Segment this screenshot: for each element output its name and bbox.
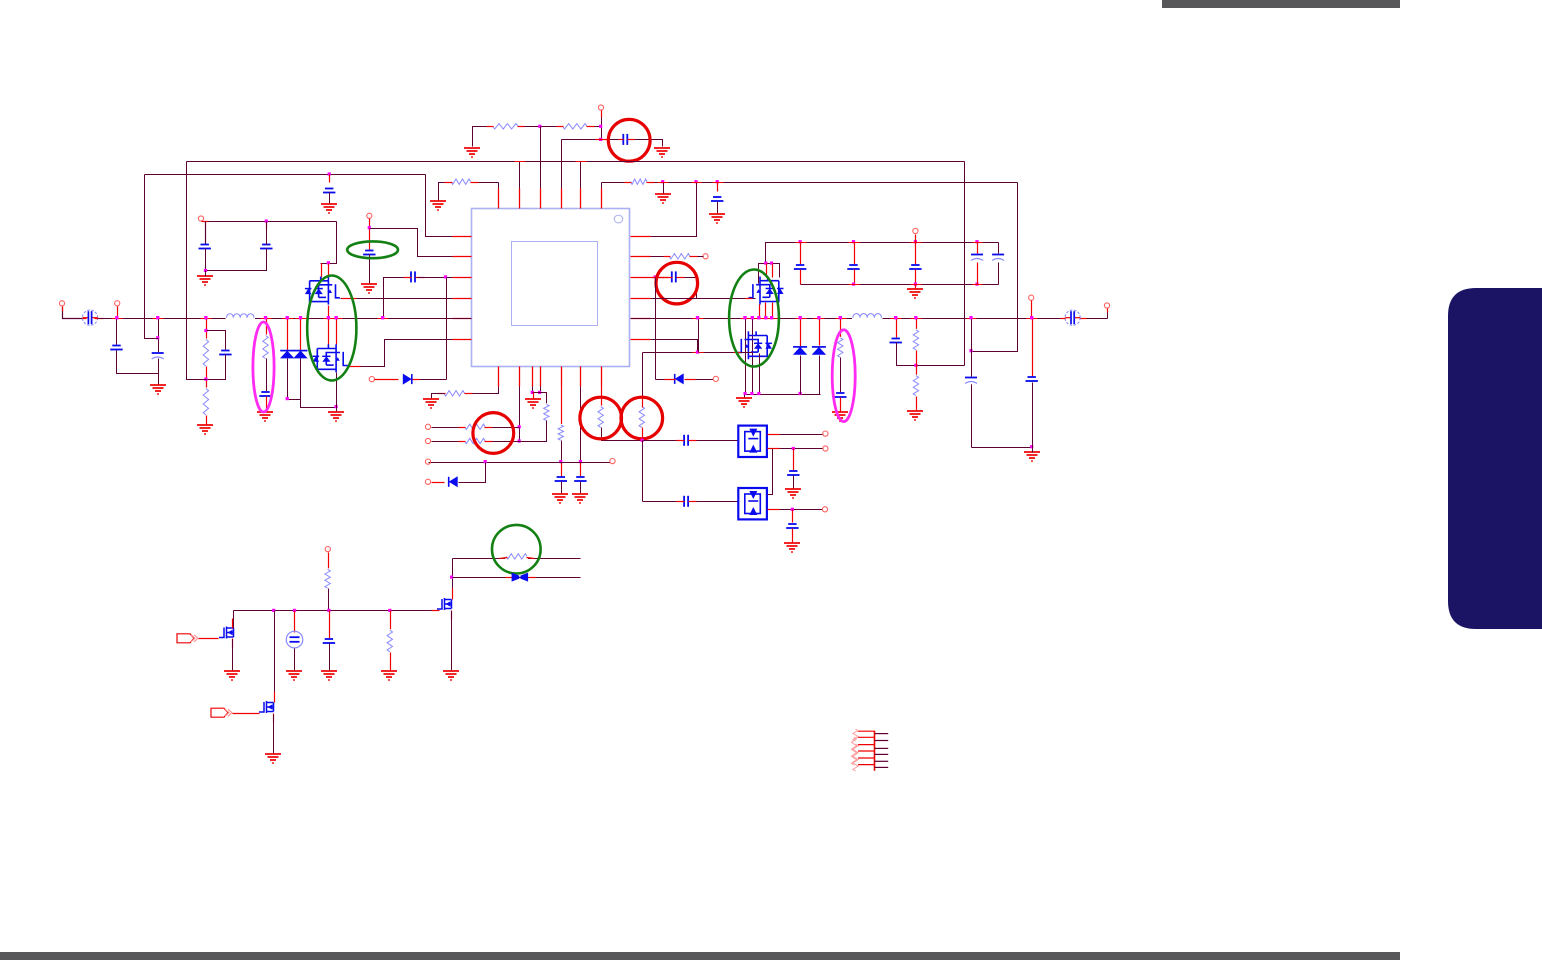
- ground under col793: [785, 489, 801, 498]
- red leads R-green: [500, 558, 508, 559]
- terminal box circuit: [198, 216, 203, 221]
- ground under col265: [257, 412, 273, 421]
- rail3 y393: [745, 394, 821, 396]
- wire col157: [158, 319, 160, 353]
- wire C-x369 to ground: [369, 255, 371, 285]
- wire cap col800 b: [800, 270, 802, 285]
- polarized cap C-998: [992, 254, 1005, 262]
- mosfet Q6: [259, 701, 274, 713]
- junction rail610 c: [327, 609, 330, 612]
- red stub DB1 top: [768, 434, 780, 436]
- resistor R-green-circle: [505, 552, 528, 561]
- polarized cap C-977: [971, 254, 984, 262]
- wire y501 to box2: [643, 501, 677, 503]
- junction gate box b: [770, 262, 773, 265]
- wire col641 bottom: [642, 428, 644, 441]
- wire terminal rail1: [915, 235, 917, 243]
- wire diode3 bottom: [800, 356, 802, 395]
- junction main 157: [156, 316, 159, 319]
- wire Q3 bottom legs: [759, 305, 761, 319]
- polarized cap C-971: [965, 377, 978, 385]
- resistor R-row181-left: [450, 177, 472, 186]
- resistor R-col840: [836, 337, 845, 359]
- resistor R-top-b: [562, 122, 588, 131]
- junction rail1 d: [975, 240, 978, 243]
- wire bottom res top: [328, 553, 330, 570]
- diode row right y379: [674, 374, 676, 384]
- junction main 895: [894, 316, 897, 319]
- ground under rail3: [736, 398, 752, 407]
- wire col697 main to wireB: [698, 319, 700, 353]
- wire P1 to Q5: [199, 638, 219, 640]
- wire col642 down: [642, 441, 644, 502]
- wire cap col853 b: [854, 270, 856, 285]
- junction main 265: [264, 316, 267, 319]
- junction DB2 bottom: [791, 508, 794, 511]
- wire branch to cap 225: [207, 331, 226, 351]
- junction bus2b pinrow1: [694, 180, 697, 183]
- wire col294: [294, 611, 296, 633]
- terminal output A: [1104, 303, 1109, 308]
- resistor R-row2: [668, 252, 691, 261]
- highlight circle C-row3r: [656, 262, 698, 304]
- wire col840 bottom: [840, 398, 842, 413]
- resistor R-393: [443, 389, 466, 398]
- IC U1 inner pad: [512, 242, 598, 326]
- junction main 205: [204, 316, 207, 319]
- wire C-y501 to box2: [697, 501, 739, 503]
- ground under col792: [784, 543, 800, 552]
- wire col532 down: [532, 387, 534, 393]
- red stub DB2 bottom: [768, 509, 780, 511]
- wire polcap col977: [977, 243, 979, 254]
- wire Q1 to IC row4: [341, 298, 453, 300]
- bus2a horizontal: [145, 174, 426, 176]
- wire DB1-DB2 link: [768, 449, 773, 495]
- red lead diode row: [413, 379, 420, 381]
- junction box top: [265, 220, 268, 223]
- red leads C-y501: [677, 501, 685, 503]
- wire col560 low: [561, 463, 563, 477]
- wire horiz1 y557: [453, 558, 581, 560]
- wire col519 down: [519, 387, 521, 442]
- wire col205: [206, 319, 208, 341]
- wire DB2 out bottom: [768, 509, 823, 511]
- wire C-y440 to box1: [697, 440, 739, 442]
- navy side tab: [1448, 288, 1542, 629]
- wire R-col205-2 bottom: [206, 416, 208, 426]
- wire col840 mid: [840, 358, 842, 393]
- terminal diode481: [425, 479, 430, 484]
- junction rail610 b: [293, 609, 296, 612]
- ground under Y1: [286, 671, 302, 680]
- wire C-row3 to IC: [418, 277, 453, 279]
- ground under rail2: [907, 289, 923, 298]
- wire box cap2 drop: [266, 222, 268, 245]
- ground top-left under row126: [464, 148, 480, 157]
- wire R-circle3a: [493, 427, 520, 429]
- red lead diode655 r: [685, 379, 696, 381]
- ground under col560: [552, 494, 568, 503]
- junction col519 a: [518, 425, 521, 428]
- junction main 745: [743, 316, 746, 319]
- terminal rail461 right: [610, 459, 615, 464]
- terminal DB1 top: [823, 431, 828, 436]
- wire row3r: [651, 277, 669, 279]
- junction rail1 b: [852, 240, 855, 243]
- wire R-col205-1 bottom: [206, 367, 208, 389]
- wire C-in2 bottom: [158, 359, 160, 386]
- ground under col533: [525, 399, 541, 408]
- junction rail2 b: [914, 283, 917, 286]
- capacitor C-top in circle: [623, 133, 629, 145]
- wire col1031: [1032, 319, 1034, 377]
- wire col915 mid: [916, 351, 918, 377]
- junction bus2b ground: [661, 180, 664, 183]
- red leads R-row181-left: [445, 182, 453, 184]
- junction row139: [599, 138, 602, 141]
- junction col205 branch: [204, 329, 207, 332]
- wire ground rail2 stub: [915, 285, 917, 290]
- resistor R-col641: [638, 406, 647, 429]
- wire diode2 top: [300, 319, 302, 351]
- junction main 287: [286, 316, 289, 319]
- wire row2 right lead: [651, 256, 670, 258]
- red leads R-top-a: [487, 126, 494, 128]
- wire row3 left: [384, 278, 411, 319]
- diode D-row379: [411, 374, 413, 384]
- ground under col840: [832, 412, 848, 421]
- ground under C-bus2b: [709, 214, 725, 223]
- capacitor C-915: [909, 264, 922, 270]
- green ellipse C-x369: [347, 241, 398, 258]
- wire ground col1031 stub: [1032, 448, 1034, 453]
- red leads R-top-b: [557, 126, 564, 128]
- capacitor C-col840: [834, 392, 847, 398]
- wire terminal-R3a: [432, 427, 459, 429]
- diode D-818: [812, 346, 826, 348]
- dual diode package DB1: [738, 426, 767, 457]
- wire row1 right: [651, 183, 697, 237]
- red leads C-y440: [677, 440, 685, 442]
- wire B gate drive: [643, 352, 753, 354]
- junction col157 bus2a: [156, 336, 159, 339]
- wire col498 down: [445, 387, 499, 394]
- junction col205 mid: [204, 378, 207, 381]
- red junction segments bus1: [515, 161, 526, 163]
- terminal R-circle3a: [425, 424, 430, 429]
- ground under C-in2: [150, 385, 166, 394]
- junction bus2b cap: [716, 180, 719, 183]
- wire col971: [971, 319, 973, 377]
- terminal rail461 left: [425, 459, 430, 464]
- capacitor C-800: [794, 264, 807, 270]
- rail1 y241: [766, 243, 999, 264]
- wire Q2 bottom: [336, 373, 338, 413]
- wire ground col533 stub: [533, 393, 535, 400]
- junction main 752: [751, 316, 754, 319]
- red stubs Q7 leads: [452, 589, 454, 600]
- junction main 1031: [1030, 316, 1033, 319]
- wire diode4 col818: [819, 319, 821, 346]
- diode D-287: [280, 350, 294, 352]
- terminal row2: [703, 254, 708, 259]
- wire col389: [390, 611, 392, 631]
- wire diode655: [656, 379, 676, 381]
- wire IC pin col 519 up to bus1: [519, 162, 521, 189]
- capacitor C-y501: [683, 495, 689, 507]
- junction col532: [531, 391, 534, 394]
- red stubs Q6 leads: [274, 692, 276, 703]
- resistor network RN1: [851, 729, 888, 771]
- capacitor C-col328: [322, 638, 335, 644]
- gate box bar: [759, 264, 780, 284]
- junction wireB: [696, 351, 699, 354]
- inductor main line: [226, 311, 256, 325]
- highlight circle R-col600: [580, 397, 622, 439]
- wire col600 bottom: [602, 428, 643, 441]
- junction main 758: [757, 316, 760, 319]
- wire cap col800: [800, 243, 802, 265]
- capacitor C-col265: [259, 391, 272, 397]
- red stubs Q5 leads: [232, 619, 234, 629]
- wire bus2a down to IC pin1: [426, 175, 453, 237]
- red stub DB1 bottom: [768, 448, 780, 450]
- terminal x369: [367, 213, 372, 218]
- capacitor C-in1: [110, 345, 123, 351]
- wire col895 to rail4: [897, 343, 965, 366]
- resistor R-col205-1: [202, 339, 211, 368]
- bus1 horizontal: [187, 161, 965, 163]
- wire horiz2 y577: [453, 577, 581, 579]
- wire col655 down: [655, 278, 657, 380]
- resistor R-col915-2: [912, 375, 921, 397]
- resistor R-circle3a: [464, 423, 487, 432]
- red stub row139: [596, 139, 608, 141]
- terminal R-circle3b: [425, 438, 430, 443]
- red leads R-row2: [664, 256, 671, 258]
- ground under row181 left: [430, 201, 446, 210]
- wire bus2b right end down: [972, 183, 1018, 352]
- junction rail1 a: [799, 240, 802, 243]
- terminal diode right row: [713, 376, 718, 381]
- capacitor C-box-2: [260, 244, 273, 250]
- junction main 771: [770, 316, 773, 319]
- wire cap col915: [915, 243, 917, 265]
- terminal above rail1: [913, 228, 918, 233]
- wire terminal to resistor row: [601, 111, 603, 118]
- inductor2 main line: [852, 311, 883, 325]
- wire cap col 116: [116, 319, 118, 345]
- wire main line right: [631, 318, 1108, 320]
- junction rail2 c: [975, 283, 978, 286]
- ground under R-393: [423, 399, 439, 408]
- wire terminal x369 down: [369, 219, 371, 251]
- wire cap row y139: [562, 140, 663, 147]
- wire col915 bottom: [916, 397, 918, 411]
- junction row126 b: [599, 125, 602, 128]
- ground under col580: [572, 494, 588, 503]
- resistor R-col546: [542, 403, 551, 421]
- wire diode2 bottom: [301, 359, 337, 408]
- junction DB1 bottom: [792, 447, 795, 450]
- wire col792 cap: [792, 510, 794, 523]
- terminal DB1 bottom: [823, 446, 828, 451]
- IC U1 outline: [472, 209, 630, 367]
- wire row6 right: [651, 340, 698, 353]
- diode D-481: [448, 477, 450, 487]
- wire cap col853: [854, 243, 856, 265]
- magenta ellipse col840: [832, 330, 855, 422]
- junction Q7 drain: [450, 576, 453, 579]
- wire Q7 source: [451, 611, 453, 672]
- wire main line left: [99, 318, 472, 320]
- wire y440 to box1: [643, 440, 677, 442]
- junction main 971: [969, 316, 972, 319]
- wire box left cap drop: [205, 222, 207, 245]
- junction x369: [368, 226, 371, 229]
- wire rail3 ground: [744, 395, 746, 398]
- port pennant P1: [177, 634, 194, 643]
- fuse input: [82, 310, 97, 325]
- mosfet Q5: [219, 627, 234, 639]
- ground under box: [197, 276, 213, 285]
- capacitor C-row3r: [671, 271, 677, 283]
- wire box bottom: [206, 249, 267, 271]
- wire col560 mid: [561, 441, 563, 463]
- wire diode655 to terminal: [696, 379, 714, 381]
- wire col294 gnd: [294, 649, 296, 672]
- wire col580 low: [580, 463, 582, 477]
- red stub output A: [1107, 309, 1109, 313]
- wire mosfet gate legs: [321, 264, 323, 278]
- junction rail3 a: [744, 392, 747, 395]
- wire Q5 source: [232, 640, 234, 672]
- red stub col641: [642, 399, 644, 408]
- red junction segments rail2: [849, 284, 860, 286]
- wire col793 gnd: [793, 476, 795, 489]
- IC U1 pins: [453, 189, 651, 387]
- capacitor C-895: [889, 338, 902, 344]
- wire Q7 drain up: [452, 559, 454, 597]
- ground under col205: [197, 425, 213, 434]
- resistor R-top-a: [492, 122, 519, 131]
- junction gate box a: [764, 262, 767, 265]
- wire DB1 out bottom: [768, 448, 824, 450]
- wire Q1 bottom lead: [328, 306, 330, 319]
- ground under col915: [907, 411, 923, 420]
- wire IC pin col 561 up: [561, 140, 563, 189]
- junction rail1 c: [914, 240, 917, 243]
- green ellipse Q3Q4: [729, 270, 779, 367]
- wire polcap col998: [998, 243, 1000, 254]
- wire col641 top: [642, 353, 644, 408]
- junction main 382: [381, 316, 384, 319]
- wire col328: [329, 611, 331, 639]
- ground right of C-top: [654, 148, 670, 157]
- wire col546 bottom: [520, 421, 547, 442]
- bus1 right leg: [964, 162, 966, 366]
- red stub bus2a cap: [329, 175, 331, 183]
- capacitor C-y440: [683, 434, 689, 446]
- red leads fuse: [83, 318, 87, 320]
- junction main 840: [839, 316, 842, 319]
- junction rail2 a: [852, 283, 855, 286]
- red stub Q2 right: [349, 366, 361, 368]
- ground under Q6: [265, 754, 281, 763]
- capacitor C-row3: [410, 271, 416, 283]
- red stub input A: [62, 307, 64, 312]
- red seg wireB: [693, 352, 704, 354]
- wire col971 bottom: [972, 447, 1033, 449]
- capacitor C-box-1: [198, 244, 211, 250]
- wire col273: [274, 611, 276, 699]
- bottom gray footer bar: [0, 952, 1400, 960]
- dual diode package DB2: [738, 488, 767, 519]
- wire diode3 col800: [800, 319, 802, 347]
- terminal input B: [115, 301, 120, 306]
- wire diode481 lead: [432, 482, 445, 484]
- red leads R-circle3b: [459, 441, 466, 443]
- wire rail610 left leg: [233, 611, 235, 629]
- junction col1031 bottom: [1030, 445, 1033, 448]
- diode D-800: [793, 346, 807, 348]
- capacitor C-col580: [574, 476, 587, 482]
- rail2 y284: [801, 284, 999, 286]
- green circle R: [492, 525, 541, 574]
- mosfet Q3 upper right: [749, 277, 784, 305]
- bus1 left leg: [187, 162, 207, 380]
- junction rail610 d: [388, 609, 391, 612]
- red stub box top mid: [266, 222, 268, 230]
- junction main 334: [335, 316, 338, 319]
- resistor R-col389: [386, 629, 395, 653]
- rail bottom y610: [234, 610, 432, 612]
- wire row y126: [473, 127, 602, 147]
- highlight circle red C-top: [608, 119, 650, 161]
- wire cap col915 b: [915, 270, 917, 285]
- junction main 818: [817, 316, 820, 319]
- wire col840 top: [840, 319, 842, 339]
- wire diode row to col445: [413, 379, 447, 381]
- red stub Q3 left: [746, 298, 753, 300]
- red leads C-row3: [404, 277, 412, 279]
- wire box bottom to ground: [205, 271, 207, 277]
- capacitor C-in2 polarized: [151, 352, 164, 360]
- wire col580 down: [580, 387, 582, 463]
- terminal input A: [59, 301, 64, 306]
- wire col389 gnd: [390, 653, 392, 672]
- wire R-circle3b: [493, 441, 520, 443]
- junction row3: [444, 275, 447, 278]
- wire row3r to corner: [685, 278, 697, 299]
- capacitor C-col792: [786, 523, 799, 529]
- wire row4 right: [651, 298, 756, 300]
- ground under Q7: [443, 671, 459, 680]
- wire col600 down: [601, 387, 603, 408]
- wire box right leg: [321, 222, 337, 264]
- mosfet Q7: [437, 598, 452, 610]
- wire C-in1 bottom: [117, 351, 159, 374]
- red stub terminal box: [202, 221, 209, 223]
- wire col793 cap: [793, 449, 795, 471]
- terminal top: [598, 105, 603, 110]
- junction diode2 bottom: [335, 405, 338, 408]
- junction rail4: [914, 364, 917, 367]
- wire gate legs: [766, 264, 768, 278]
- wire bus2a left leg: [145, 175, 159, 339]
- wire diode4 bottom: [819, 356, 821, 395]
